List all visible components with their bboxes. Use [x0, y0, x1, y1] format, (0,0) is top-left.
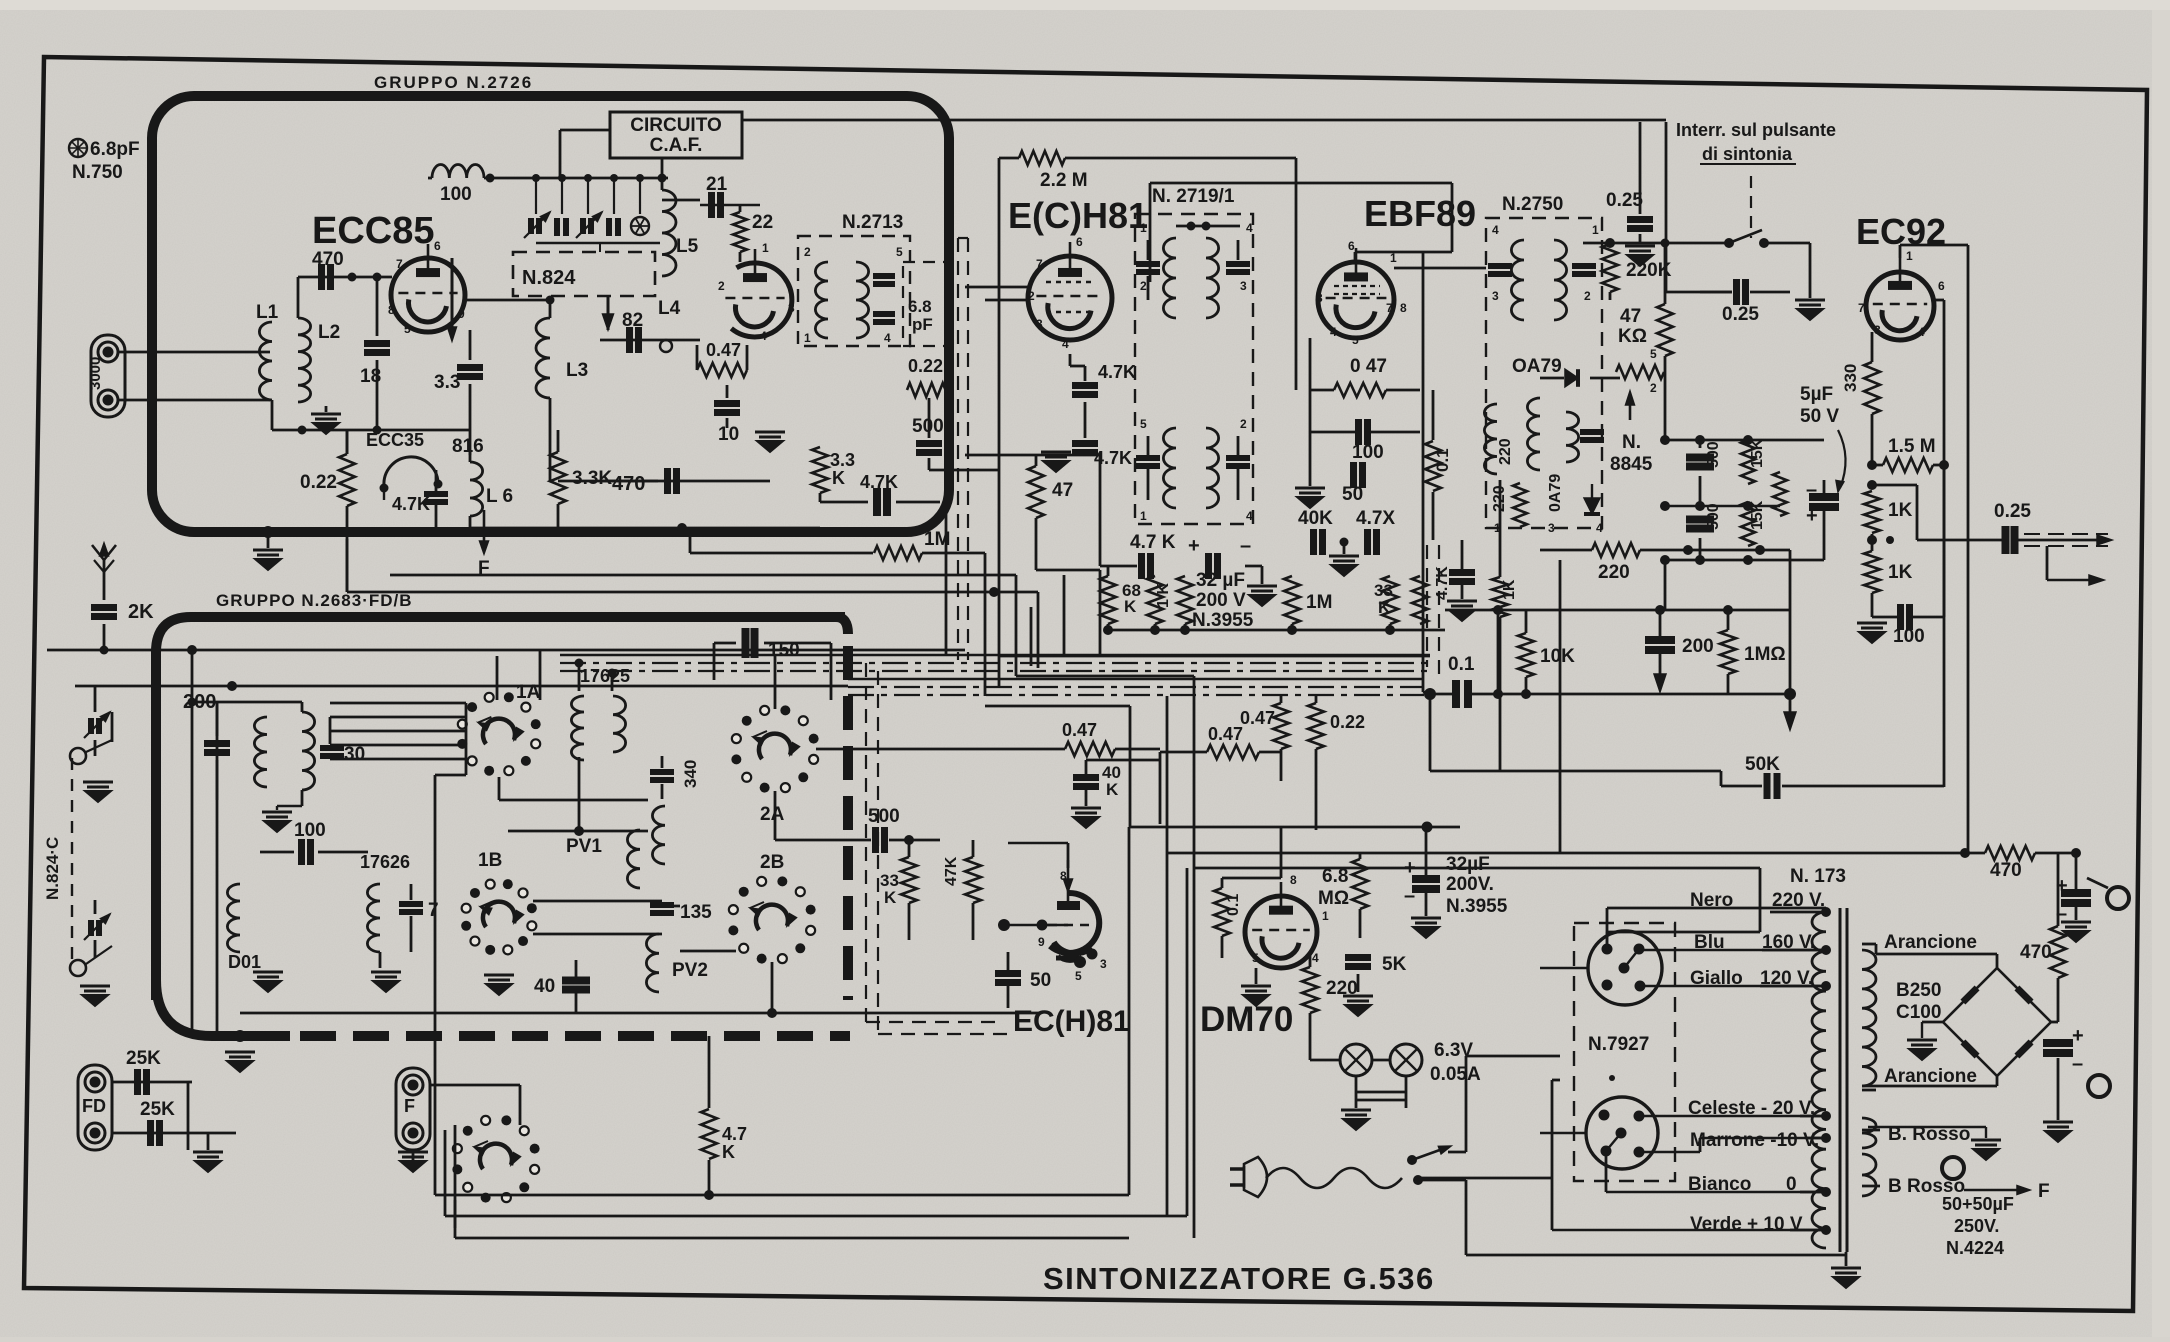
svg-text:ECC85: ECC85 — [312, 210, 435, 252]
svg-text:2: 2 — [1650, 381, 1657, 395]
svg-text:N.4224: N.4224 — [1946, 1238, 2004, 1258]
svg-text:5: 5 — [1140, 417, 1147, 431]
svg-text:2: 2 — [1140, 279, 1147, 293]
svg-text:17626: 17626 — [360, 852, 410, 872]
svg-text:500: 500 — [868, 806, 900, 827]
svg-text:Arancione: Arancione — [1884, 932, 1977, 953]
svg-text:5: 5 — [1352, 333, 1359, 347]
svg-text:CIRCUITO: CIRCUITO — [630, 115, 721, 136]
svg-text:1K: 1K — [1888, 562, 1913, 583]
svg-text:1K: 1K — [1888, 500, 1913, 521]
svg-text:N.2750: N.2750 — [1502, 194, 1563, 215]
svg-text:F: F — [2038, 1181, 2050, 1202]
svg-text:6: 6 — [1938, 279, 1945, 293]
svg-text:4.7 K: 4.7 K — [1130, 532, 1176, 553]
svg-text:9: 9 — [458, 307, 465, 321]
svg-text:+: + — [2072, 1025, 2084, 1047]
svg-text:C.A.F.: C.A.F. — [650, 135, 703, 156]
svg-text:L1: L1 — [256, 302, 279, 323]
svg-text:1: 1 — [1322, 909, 1329, 923]
svg-text:+: + — [1404, 857, 1416, 879]
svg-text:0.47: 0.47 — [1062, 720, 1097, 740]
svg-text:200 V: 200 V — [1196, 590, 1246, 611]
svg-text:ECC35: ECC35 — [366, 430, 424, 450]
svg-text:0.22: 0.22 — [908, 356, 943, 376]
svg-text:1M: 1M — [1306, 592, 1332, 613]
svg-text:3: 3 — [1100, 957, 1107, 971]
svg-text:470: 470 — [312, 249, 344, 270]
svg-text:Marrone -10 V.: Marrone -10 V. — [1690, 1130, 1819, 1151]
svg-text:50+50µF: 50+50µF — [1942, 1194, 2014, 1214]
svg-text:1A: 1A — [516, 682, 541, 703]
svg-text:D01: D01 — [228, 952, 261, 972]
svg-text:0.05A: 0.05A — [1430, 1064, 1481, 1085]
svg-text:3: 3 — [1240, 279, 1247, 293]
svg-text:22: 22 — [752, 212, 773, 233]
svg-text:8: 8 — [1290, 873, 1297, 887]
svg-text:10K: 10K — [1540, 646, 1575, 667]
svg-text:2: 2 — [1028, 289, 1035, 303]
svg-text:N.3955: N.3955 — [1446, 896, 1508, 917]
svg-text:4.7: 4.7 — [722, 1124, 747, 1144]
svg-text:200V.: 200V. — [1446, 874, 1494, 895]
svg-text:4: 4 — [1918, 325, 1925, 339]
svg-text:5: 5 — [404, 322, 411, 336]
svg-text:N.2713: N.2713 — [842, 212, 903, 233]
svg-text:6: 6 — [1348, 239, 1355, 253]
svg-text:1: 1 — [804, 331, 811, 345]
svg-text:470: 470 — [2020, 942, 2052, 963]
svg-text:2: 2 — [1584, 289, 1591, 303]
svg-text:N.750: N.750 — [72, 162, 123, 183]
svg-text:2: 2 — [804, 245, 811, 259]
svg-text:L3: L3 — [566, 360, 588, 381]
svg-text:K: K — [1124, 597, 1137, 616]
svg-text:PV1: PV1 — [566, 836, 602, 857]
svg-text:N.: N. — [1622, 432, 1641, 453]
svg-text:0.25: 0.25 — [1722, 304, 1759, 325]
svg-text:1: 1 — [1390, 251, 1397, 265]
svg-text:50 V: 50 V — [1800, 406, 1839, 427]
svg-text:18: 18 — [360, 366, 381, 387]
svg-text:135: 135 — [680, 902, 712, 923]
svg-text:4: 4 — [1312, 951, 1319, 965]
svg-text:0.47: 0.47 — [706, 340, 741, 360]
svg-text:N. 173: N. 173 — [1790, 866, 1846, 887]
svg-text:32µF: 32µF — [1446, 854, 1490, 875]
svg-text:1B: 1B — [478, 850, 502, 871]
svg-text:4.7K: 4.7K — [1098, 362, 1136, 382]
svg-text:1.5 M: 1.5 M — [1888, 436, 1936, 457]
svg-text:B250: B250 — [1896, 980, 1941, 1001]
svg-text:GRUPPO N.2726: GRUPPO N.2726 — [374, 73, 533, 92]
svg-text:100: 100 — [1352, 442, 1384, 463]
svg-text:EC(H)81: EC(H)81 — [1013, 1005, 1130, 1038]
svg-text:8: 8 — [1400, 301, 1407, 315]
svg-text:100: 100 — [440, 184, 472, 205]
svg-text:N.824: N.824 — [522, 267, 576, 289]
svg-text:4: 4 — [884, 331, 891, 345]
svg-text:0 47: 0 47 — [1350, 356, 1387, 377]
svg-text:F: F — [404, 1096, 415, 1116]
svg-text:5: 5 — [1650, 347, 1657, 361]
svg-text:5: 5 — [1252, 951, 1259, 965]
svg-text:–: – — [1404, 885, 1415, 907]
svg-text:47: 47 — [1620, 306, 1641, 327]
svg-text:K: K — [722, 1142, 735, 1162]
svg-text:0.22: 0.22 — [1330, 712, 1365, 732]
svg-text:2A: 2A — [760, 804, 785, 825]
svg-text:0.25: 0.25 — [1994, 501, 2031, 522]
svg-text:E(C)H81: E(C)H81 — [1008, 195, 1148, 236]
svg-text:4: 4 — [1062, 337, 1069, 351]
svg-text:7: 7 — [428, 900, 439, 921]
svg-text:220: 220 — [1598, 562, 1630, 583]
svg-text:40: 40 — [534, 976, 555, 997]
svg-text:9: 9 — [1038, 935, 1045, 949]
svg-text:30: 30 — [344, 744, 365, 765]
svg-text:1K: 1K — [1501, 579, 1518, 600]
svg-text:DM70: DM70 — [1200, 1000, 1293, 1039]
svg-text:–: – — [2072, 1053, 2083, 1075]
svg-text:2: 2 — [718, 279, 725, 293]
svg-text:2K: 2K — [128, 601, 154, 623]
svg-text:3: 3 — [1036, 317, 1043, 331]
svg-text:4: 4 — [1596, 521, 1603, 535]
svg-text:4: 4 — [1246, 221, 1253, 235]
svg-text:340: 340 — [681, 760, 700, 788]
svg-text:1: 1 — [1140, 221, 1147, 235]
svg-text:1: 1 — [1592, 223, 1599, 237]
svg-text:220: 220 — [1497, 438, 1514, 465]
svg-text:4.7K: 4.7K — [392, 494, 430, 514]
svg-text:pF: pF — [912, 315, 933, 334]
svg-text:–: – — [1240, 535, 1251, 557]
svg-text:1MΩ: 1MΩ — [1744, 644, 1786, 665]
svg-text:47K: 47K — [943, 856, 960, 886]
svg-text:220: 220 — [1491, 485, 1508, 512]
svg-text:–: – — [1806, 479, 1817, 501]
svg-text:6: 6 — [1076, 235, 1083, 249]
svg-text:Verde + 10 V: Verde + 10 V — [1690, 1214, 1803, 1235]
svg-text:+: + — [1188, 535, 1200, 557]
svg-text:0.47: 0.47 — [1240, 708, 1275, 728]
svg-text:25K: 25K — [126, 1048, 161, 1069]
svg-text:6.8: 6.8 — [1322, 866, 1348, 887]
svg-text:6: 6 — [434, 239, 441, 253]
svg-text:220: 220 — [1326, 978, 1358, 999]
svg-text:L 6: L 6 — [486, 486, 513, 507]
svg-text:L4: L4 — [658, 298, 681, 319]
svg-text:3.3K: 3.3K — [572, 468, 612, 489]
svg-text:816: 816 — [452, 436, 484, 457]
svg-text:4: 4 — [1246, 509, 1253, 523]
svg-text:1: 1 — [1494, 521, 1501, 535]
svg-text:L2: L2 — [318, 322, 340, 343]
svg-text:3: 3 — [1492, 289, 1499, 303]
svg-text:3: 3 — [1874, 323, 1881, 337]
svg-text:5: 5 — [1075, 969, 1082, 983]
svg-text:N. 2719/1: N. 2719/1 — [1152, 186, 1235, 207]
svg-text:1: 1 — [1906, 249, 1913, 263]
svg-text:2: 2 — [1240, 417, 1247, 431]
svg-text:4: 4 — [760, 329, 767, 343]
svg-text:3: 3 — [1548, 521, 1555, 535]
svg-text:K: K — [1378, 598, 1391, 617]
svg-text:50: 50 — [1342, 484, 1363, 505]
svg-text:100: 100 — [294, 820, 326, 841]
svg-text:4.7K: 4.7K — [860, 472, 898, 492]
svg-text:3: 3 — [1316, 291, 1323, 305]
svg-text:8: 8 — [388, 303, 395, 317]
svg-text:5: 5 — [896, 245, 903, 259]
svg-text:7: 7 — [1036, 257, 1043, 271]
svg-text:0.22: 0.22 — [300, 472, 337, 493]
svg-text:82: 82 — [622, 310, 643, 331]
svg-text:21: 21 — [706, 174, 728, 195]
svg-text:EBF89: EBF89 — [1364, 193, 1476, 234]
svg-text:2.2 M: 2.2 M — [1040, 170, 1088, 191]
svg-text:di sintonia: di sintonia — [1702, 144, 1793, 164]
svg-text:6.3V: 6.3V — [1434, 1040, 1473, 1061]
svg-text:0A79: 0A79 — [1547, 474, 1564, 512]
svg-text:MΩ: MΩ — [1318, 888, 1349, 909]
svg-text:L5: L5 — [676, 236, 699, 257]
svg-text:5µF: 5µF — [1800, 384, 1833, 405]
svg-text:1 K: 1 K — [1155, 583, 1172, 608]
svg-text:470: 470 — [1990, 860, 2022, 881]
svg-text:10: 10 — [718, 424, 739, 445]
svg-text:OA79: OA79 — [1512, 356, 1562, 377]
svg-text:4.7X: 4.7X — [1356, 508, 1395, 529]
svg-text:0.1: 0.1 — [1448, 654, 1475, 675]
svg-text:50K: 50K — [1745, 754, 1780, 775]
svg-text:7: 7 — [1386, 301, 1393, 315]
svg-text:PV2: PV2 — [672, 960, 708, 981]
svg-text:3.3: 3.3 — [830, 450, 855, 470]
svg-text:5K: 5K — [1382, 954, 1407, 975]
svg-text:4.7K: 4.7K — [1434, 566, 1451, 600]
svg-text:GRUPPO N.2683·FD/B: GRUPPO N.2683·FD/B — [216, 591, 413, 610]
svg-text:+: + — [1806, 505, 1818, 527]
svg-text:K: K — [832, 468, 845, 488]
svg-text:Arancione: Arancione — [1884, 1066, 1977, 1087]
svg-text:K: K — [884, 888, 897, 907]
svg-text:7: 7 — [396, 257, 403, 271]
svg-text:1: 1 — [1140, 509, 1147, 523]
svg-text:200: 200 — [1682, 636, 1714, 657]
svg-text:250V.: 250V. — [1954, 1216, 1999, 1236]
svg-text:3.3: 3.3 — [434, 372, 460, 393]
svg-text:0.47: 0.47 — [1208, 724, 1243, 744]
svg-text:C100: C100 — [1896, 1002, 1941, 1023]
svg-text:N.824·C: N.824·C — [43, 837, 62, 900]
svg-text:0.25: 0.25 — [1606, 190, 1643, 211]
svg-text:6.8pF: 6.8pF — [90, 139, 140, 160]
svg-text:4: 4 — [1492, 223, 1499, 237]
svg-text:40K: 40K — [1298, 508, 1333, 529]
svg-text:N.3955: N.3955 — [1192, 610, 1254, 631]
svg-text:K: K — [1106, 780, 1119, 799]
svg-text:0.1: 0.1 — [1225, 894, 1242, 916]
svg-text:25K: 25K — [140, 1099, 175, 1120]
svg-text:KΩ: KΩ — [1618, 326, 1647, 347]
svg-text:470: 470 — [612, 473, 645, 495]
svg-text:100: 100 — [1893, 626, 1925, 647]
svg-text:FD: FD — [82, 1096, 106, 1116]
svg-text:SINTONIZZATORE G.536: SINTONIZZATORE G.536 — [1043, 1261, 1435, 1296]
svg-text:32 µF: 32 µF — [1196, 570, 1245, 591]
svg-text:2B: 2B — [760, 852, 784, 873]
svg-text:1: 1 — [762, 241, 769, 255]
svg-text:50: 50 — [1030, 970, 1051, 991]
svg-text:500: 500 — [912, 416, 944, 437]
svg-text:7: 7 — [1858, 301, 1865, 315]
svg-text:Interr. sul pulsante: Interr. sul pulsante — [1676, 120, 1836, 140]
svg-text:17625: 17625 — [580, 666, 630, 686]
svg-text:47: 47 — [1052, 480, 1073, 501]
svg-text:500: 500 — [1705, 441, 1722, 468]
svg-text:0.1: 0.1 — [1433, 448, 1452, 472]
svg-text:N.7927: N.7927 — [1588, 1034, 1649, 1055]
svg-text:3: 3 — [788, 301, 795, 315]
svg-text:8845: 8845 — [1610, 454, 1653, 475]
svg-text:4: 4 — [1330, 325, 1337, 339]
svg-text:3000: 3000 — [87, 357, 104, 390]
svg-text:330: 330 — [1841, 364, 1860, 392]
svg-text:500: 500 — [1705, 503, 1722, 530]
svg-text:6.8: 6.8 — [908, 297, 932, 316]
